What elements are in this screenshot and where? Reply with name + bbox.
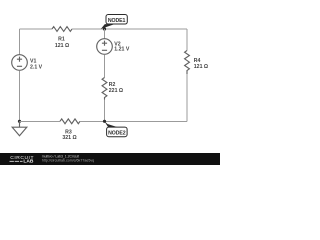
svg-text:221 Ω: 221 Ω: [109, 88, 123, 94]
footer bar: [0, 153, 220, 165]
svg-text:http://circuitlab.com/c/6k77ae: http://circuitlab.com/c/6k77ae5vq: [42, 158, 94, 162]
label V2 value 1.21 V: [114, 42, 130, 53]
svg-text:121 Ω: 121 Ω: [55, 43, 69, 49]
node NODE2 pointer: [104, 121, 117, 127]
wire left rail upper: [19, 29, 21, 55]
wire V2 to R2: [104, 54, 106, 77]
label R3 value 321 Ω: [62, 129, 76, 141]
wire bottom-left segment: [20, 120, 61, 122]
resistor R1: [52, 27, 72, 32]
label R1 value 121 Ω: [55, 37, 69, 49]
node junction top-middle: [103, 27, 106, 30]
node NODE2: [107, 127, 128, 137]
label V1 value 2.1 V: [30, 58, 43, 70]
wire top-right segment: [72, 28, 187, 30]
node junction bottom-middle: [103, 120, 106, 123]
svg-text:1.21 V: 1.21 V: [114, 47, 130, 53]
wire R2 to bottom: [104, 100, 106, 122]
svg-text:R1: R1: [58, 37, 65, 43]
node NODE1 pointer: [101, 24, 115, 29]
svg-text:NODE2: NODE2: [108, 130, 126, 136]
node NODE1: [106, 15, 127, 25]
svg-text:LAB: LAB: [23, 159, 34, 165]
svg-text:NODE1: NODE1: [108, 18, 126, 24]
svg-text:2.1 V: 2.1 V: [30, 64, 43, 70]
label R2 value 221 Ω: [109, 82, 123, 94]
node junction bottom-left: [18, 120, 21, 123]
svg-text:321 Ω: 321 Ω: [62, 135, 76, 141]
voltage source V2: [97, 39, 113, 55]
label R4 value 121 Ω: [194, 58, 208, 70]
wire top-left segment: [20, 28, 53, 30]
resistor R3: [60, 119, 80, 124]
wire bottom-right segment: [80, 120, 187, 122]
svg-text:121 Ω: 121 Ω: [194, 64, 208, 70]
ground: [12, 121, 27, 135]
footer logo CircuitLab: [10, 155, 34, 165]
resistor R2: [102, 78, 107, 100]
wire right rail upper: [186, 29, 188, 51]
resistor R4: [185, 51, 190, 75]
voltage source V1: [12, 55, 28, 71]
wire left rail lower: [19, 70, 21, 121]
wire middle to V2: [104, 29, 106, 39]
wire right rail lower: [186, 74, 188, 121]
